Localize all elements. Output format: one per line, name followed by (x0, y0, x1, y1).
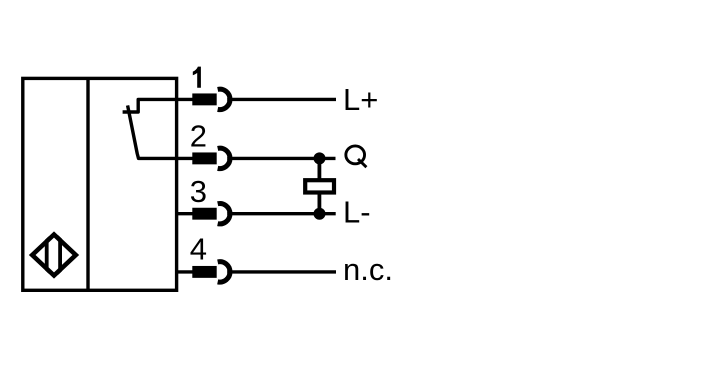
svg-text:L-: L- (343, 195, 371, 230)
svg-text:L+: L+ (343, 82, 378, 117)
wire pin3 from box (175, 212, 193, 215)
label Q (346, 146, 367, 167)
sensor body divider (86, 78, 89, 290)
wire pin2 to Q (227, 157, 335, 160)
wire pin3 to L- (227, 212, 336, 215)
pin 1 socket arc (218, 89, 230, 109)
pin 3 socket arc (218, 204, 230, 224)
load branch wire (317, 158, 321, 213)
svg-text:2: 2 (190, 119, 207, 154)
svg-text:3: 3 (190, 174, 207, 209)
pin 4 contact (192, 266, 216, 278)
pin 4 socket arc (218, 262, 230, 282)
diamond inner bar left (45, 231, 49, 279)
switch blade (to pin 2 wire) (128, 105, 193, 158)
pin 1 contact (192, 93, 216, 105)
wire pin4 to n.c. (227, 270, 336, 273)
wire pin4 from box (175, 270, 193, 273)
pin 2 socket arc (218, 148, 230, 168)
pin 3 contact (192, 208, 216, 220)
junction node on L- (314, 208, 326, 220)
pin number 1 (193, 67, 201, 88)
load resistor (305, 180, 334, 192)
switch fixed contact (from pin 1 wire) (123, 99, 193, 112)
diamond inner bar right (58, 231, 62, 279)
sensor body outline (23, 78, 177, 290)
junction node on Q (314, 152, 326, 164)
wire pin1 to L+ (227, 98, 336, 101)
pin 2 contact (192, 152, 216, 164)
svg-text:n.c.: n.c. (343, 252, 393, 287)
svg-text:4: 4 (190, 232, 207, 267)
